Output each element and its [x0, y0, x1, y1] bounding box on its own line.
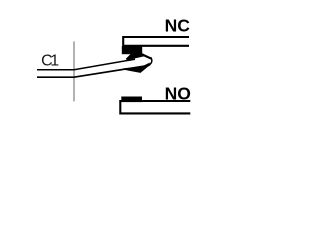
- moving contact arrowhead upper half: [126, 53, 145, 60]
- NC contact pad: [122, 46, 142, 54]
- NC terminal bar: [123, 37, 189, 46]
- common armature lever C1 (white band): [37, 57, 152, 77]
- NO contact pad: [121, 97, 142, 103]
- moving contact arrowhead lower half: [124, 63, 150, 73]
- svg-text:NC: NC: [165, 15, 191, 35]
- svg-text:NO: NO: [165, 84, 191, 104]
- NO terminal bar: [120, 101, 190, 113]
- pivot line: [73, 41, 75, 101]
- moving contact arrowhead neck: [141, 53, 151, 59]
- svg-text:1: 1: [50, 53, 59, 70]
